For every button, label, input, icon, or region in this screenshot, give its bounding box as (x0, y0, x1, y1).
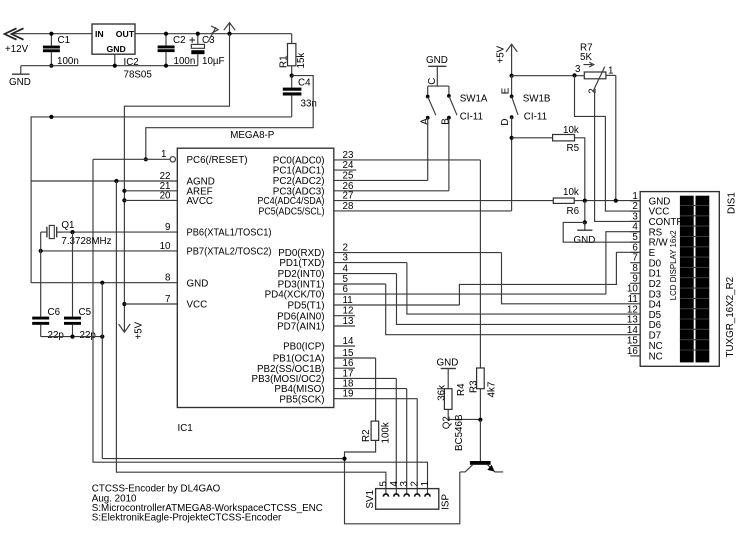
pin 26 PC3 wire (334, 190, 449, 192)
svg-text:GND: GND (187, 278, 209, 289)
capacitor C4 (283, 76, 317, 117)
svg-text:+5V: +5V (495, 45, 506, 63)
svg-text:7: 7 (165, 294, 170, 305)
wire PD2 to LCD D6 (397, 274, 641, 325)
wire PB5 to ISP pin2 (416, 399, 418, 494)
pin 3 PD1 wire (334, 262, 407, 264)
wire RESET row to pin1 (93, 158, 170, 160)
wire PD4 to LCD RS (606, 232, 640, 294)
LCD display DIS1 box (640, 192, 737, 367)
svg-text:ISP: ISP (440, 494, 451, 510)
ground symbol top-left (9, 66, 31, 88)
svg-text:PD2(INT0): PD2(INT0) (278, 269, 325, 280)
resistor R1 (279, 34, 308, 76)
wire RESET net R1 to pin1 (146, 76, 313, 160)
wire +5V branch to AVCC/AREF/VCC (124, 34, 229, 331)
resistor R6 10k (553, 187, 640, 217)
svg-text:OUT: OUT (116, 29, 135, 39)
svg-text:7.3728MHz: 7.3728MHz (61, 236, 111, 247)
svg-text:14: 14 (627, 325, 638, 336)
svg-text:PD1(TXD): PD1(TXD) (279, 258, 324, 269)
LCD pin 10 D3 stub (630, 293, 640, 295)
pin 6 PD4 wire (334, 293, 606, 295)
wire pot wiper to LCD CONTR (595, 90, 641, 221)
LCD pin 15 NC stub (630, 345, 640, 347)
wire ISP GND column (116, 181, 386, 494)
wire PC0 to R3 (479, 160, 481, 368)
svg-text:+12V: +12V (5, 44, 29, 55)
junction SW1B-D / R5 (510, 136, 514, 140)
svg-text:4: 4 (343, 264, 349, 275)
svg-text:E: E (501, 87, 512, 94)
svg-text:16: 16 (627, 346, 638, 357)
microcontroller IC1 MEGA8-P (177, 130, 333, 434)
switch SW1B CI-11 (500, 76, 551, 126)
svg-text:11: 11 (343, 295, 353, 306)
junction caps row / GND column (100, 335, 104, 339)
capacitor C5 (64, 307, 96, 341)
svg-text:10: 10 (160, 241, 171, 252)
svg-text:IC2: IC2 (124, 57, 139, 68)
wire PD0 to LCD D4 (502, 253, 641, 304)
pin 15 PB1 wire (334, 357, 376, 359)
pin 23 PC0 wire (334, 159, 481, 161)
svg-text:R1: R1 (279, 55, 290, 68)
wire SW1B-D to PC5 (511, 117, 513, 211)
wire RESET to ISP pin1 (93, 159, 428, 493)
junction Q2 base / R3 / R4 (478, 418, 482, 422)
svg-text:100n: 100n (174, 56, 196, 67)
svg-text:1: 1 (420, 481, 431, 486)
svg-text:100k: 100k (381, 422, 392, 443)
ground symbol above SW1A (426, 55, 448, 86)
pin 16 PB2 stub (334, 367, 355, 369)
pin 20 AVCC wire (124, 199, 177, 201)
LCD pin 7 D0 stub (630, 262, 640, 264)
svg-text:36k: 36k (436, 385, 447, 401)
pin 25 PC2 wire (334, 179, 428, 181)
pin 17 PB3 wire (334, 377, 397, 379)
svg-text:D2: D2 (649, 279, 662, 290)
pin 12 PD6 stub (334, 315, 355, 317)
svg-text:5K: 5K (580, 52, 592, 63)
junction +5V arrow (227, 32, 231, 36)
pin 27 PC4 wire to R6 (334, 200, 554, 202)
supply arrow +5V top (224, 23, 235, 34)
svg-text:PD7(AIN1): PD7(AIN1) (277, 322, 324, 333)
transistor Q2 BC546B (442, 414, 504, 472)
svg-text:LCD DISPLAY 16x2: LCD DISPLAY 16x2 (669, 230, 678, 300)
ground symbol above R4 (437, 357, 459, 388)
junction C3 top (196, 32, 200, 36)
junction pin10 / crystal column (39, 249, 43, 253)
svg-text:GND: GND (9, 77, 31, 88)
svg-text:22p: 22p (80, 330, 97, 341)
svg-text:D7: D7 (649, 331, 662, 342)
junction C1 bottom (49, 64, 53, 68)
supply arrow +5V at SW1B (495, 44, 517, 75)
voltage regulator IC2 78S05 (92, 24, 152, 80)
capacitor C1 (43, 34, 79, 67)
svg-text:CI-11: CI-11 (524, 112, 547, 123)
wire PB1 to R2 (375, 358, 377, 421)
svg-text:C: C (427, 78, 438, 85)
svg-text:3: 3 (575, 64, 581, 75)
junction AVCC (122, 198, 126, 202)
junction +5V / pot row (510, 74, 514, 78)
junction C1 top (49, 32, 53, 36)
svg-text:C6: C6 (48, 307, 61, 318)
svg-text:25: 25 (343, 170, 354, 181)
pin 22 AGND wire (31, 180, 177, 182)
svg-text:C5: C5 (79, 307, 92, 318)
junction pin8 / GND column (100, 281, 104, 285)
junction C2 top (164, 32, 168, 36)
pin 14 PB0 stub (334, 345, 355, 347)
switch SW1A CI-11 (419, 78, 488, 125)
LCD pin 6 E (630, 251, 640, 253)
svg-text:GND: GND (107, 44, 126, 54)
wire GND column pin8 to bottom (101, 283, 103, 459)
LCD pin 16 NC stub (630, 355, 640, 357)
pin 28 PC5 wire (334, 210, 512, 212)
svg-text:SV1: SV1 (365, 490, 376, 509)
ground symbol below R6 (574, 222, 596, 245)
supply arrow small over C3 (208, 26, 218, 42)
capacitor C2 (158, 34, 196, 67)
svg-text:28: 28 (343, 201, 354, 212)
svg-text:R2: R2 (361, 429, 372, 442)
pin 5 PD3 wire (334, 283, 386, 285)
svg-text:B: B (440, 118, 451, 125)
svg-text:10µF: 10µF (202, 56, 225, 67)
junction GND row / R2 column (342, 457, 346, 461)
svg-text:PB6(XTAL1/TOSC1): PB6(XTAL1/TOSC1) (187, 228, 272, 239)
svg-text:20: 20 (160, 190, 171, 201)
LCD pin 1 GND (630, 200, 640, 202)
wire C5 column (72, 232, 74, 317)
svg-text:PB5(SCK): PB5(SCK) (279, 394, 324, 405)
capacitor C3 polarized (190, 34, 225, 67)
resistor R2 100k (361, 421, 392, 443)
pin 19 PB5 wire (334, 398, 417, 400)
svg-text:78S05: 78S05 (124, 69, 153, 80)
svg-text:10k: 10k (563, 187, 579, 198)
svg-text:22p: 22p (48, 330, 65, 341)
potentiometer R7 5K (572, 43, 615, 94)
svg-text:CI-11: CI-11 (460, 112, 483, 123)
wire R6 to ground symbol (584, 201, 586, 223)
junction pot pin1 / GND row (614, 199, 618, 203)
svg-text:PC2(ADC2): PC2(ADC2) (273, 176, 325, 187)
svg-text:PB0(ICP): PB0(ICP) (283, 342, 324, 353)
svg-text:S:ElektronikEagle-ProjekteCTCS: S:ElektronikEagle-ProjekteCTCSS-Encoder (92, 513, 282, 524)
svg-text:R3: R3 (468, 380, 479, 393)
wire R2 bottom to GND net (345, 440, 460, 523)
svg-text:4: 4 (632, 222, 638, 233)
svg-text:1: 1 (608, 65, 613, 76)
text title block (92, 484, 323, 524)
junction VCC (122, 302, 126, 306)
svg-text:PD5(T1): PD5(T1) (287, 301, 324, 312)
junction C5 bottom (70, 335, 74, 339)
svg-text:19: 19 (343, 389, 354, 400)
svg-text:6: 6 (343, 284, 349, 295)
wire GND loop to LCD R/W (563, 222, 640, 242)
svg-text:3: 3 (343, 253, 349, 264)
junction GND row / C1 column (49, 115, 53, 119)
svg-text:10k: 10k (563, 125, 579, 136)
svg-text:PB7(XTAL2/TOSC2): PB7(XTAL2/TOSC2) (187, 247, 272, 258)
supply arrow +12V input (5, 28, 29, 55)
pin 1 bubble PC6/RESET (170, 157, 175, 162)
wire +5V rail (135, 33, 292, 35)
wire caps ground row (41, 336, 103, 338)
wire crystal left to C6 (40, 232, 42, 317)
junction R6 right / GND stub (583, 199, 587, 203)
wire GND rail (21, 65, 198, 67)
junction AREF (122, 189, 126, 193)
supply arrow +5V down at VCC (119, 321, 145, 339)
svg-text:PC6(/RESET): PC6(/RESET) (187, 155, 248, 166)
pin 11 PD5 wire (334, 304, 460, 306)
junction IC2 GND pin (113, 64, 117, 68)
svg-text:SW1A: SW1A (460, 94, 488, 105)
wire PD5 jog to LCD E (459, 252, 616, 305)
svg-text:PC5(ADC5/SCL): PC5(ADC5/SCL) (259, 207, 325, 218)
LCD pin 9 D2 stub (630, 282, 640, 284)
wire SW1A-B to PC3 (448, 118, 450, 191)
crystal Q1 (41, 220, 112, 247)
svg-text:33n: 33n (301, 99, 317, 110)
LCD pin 2 VCC (630, 210, 640, 212)
svg-text:2: 2 (587, 88, 598, 93)
wire GND row from C4 to left column (31, 117, 292, 283)
svg-text:SW1B: SW1B (523, 94, 551, 105)
pin 7 VCC wire (124, 303, 177, 305)
pin 21 AREF wire (124, 190, 177, 192)
resistor R3 4k7 (468, 368, 497, 420)
svg-text:4: 4 (389, 481, 400, 487)
svg-text:4k7: 4k7 (486, 382, 497, 398)
wire PB4 to ISP pin3 (406, 389, 408, 494)
capacitor C6 (32, 307, 64, 341)
svg-text:Q1: Q1 (61, 220, 74, 231)
svg-text:9: 9 (165, 222, 170, 233)
pin 2 PD0 wire (334, 252, 502, 254)
junction C2 bottom (164, 64, 168, 68)
svg-text:C1: C1 (58, 35, 71, 46)
svg-text:AVCC: AVCC (187, 196, 214, 207)
wire +5V row to pot pin3 (512, 75, 585, 77)
pin 9 PB6 wire (57, 231, 177, 233)
LCD pin 4 RS (630, 231, 640, 233)
resistor R4 36k (436, 383, 480, 419)
svg-text:IC1: IC1 (178, 423, 193, 434)
svg-text:R6: R6 (567, 206, 580, 217)
resistor R5 10k (512, 125, 585, 201)
LCD pin 3 CONTR (630, 220, 640, 222)
svg-text:+5V: +5V (134, 321, 145, 339)
svg-text:MEGA8-P: MEGA8-P (230, 130, 275, 141)
junction R1 bottom (290, 74, 294, 78)
wire pot pin1 to GND row (615, 75, 617, 200)
svg-text:NC: NC (649, 352, 663, 363)
svg-text:C2: C2 (173, 35, 186, 46)
svg-text:3: 3 (399, 481, 410, 487)
wire +12V rail (13, 33, 92, 35)
svg-text:1: 1 (161, 149, 166, 160)
LCD cell grid (680, 196, 709, 363)
wire +5V jog to LCD VCC (575, 75, 641, 211)
svg-text:GND: GND (437, 357, 459, 368)
svg-text:R4: R4 (456, 383, 467, 396)
wire PB3 to ISP pin4 (395, 378, 397, 493)
pin 8 GND wire (31, 282, 177, 284)
svg-text:14: 14 (343, 336, 354, 347)
wire GND row from column to R2 net (102, 458, 344, 460)
svg-text:13: 13 (343, 316, 354, 327)
pin 13 PD7 stub (334, 325, 355, 327)
svg-text:PD4(XCK/T0): PD4(XCK/T0) (265, 290, 325, 301)
wire SW1A-A to PC2 (427, 118, 429, 181)
svg-text:GND: GND (574, 235, 596, 246)
LCD pin 5 R/W (630, 241, 640, 243)
svg-text:GND: GND (426, 55, 448, 66)
svg-text:DIS1: DIS1 (727, 192, 738, 214)
junction RESET row (144, 157, 148, 161)
svg-text:BC546B: BC546B (454, 414, 465, 451)
LCD pin 8 D1 stub (630, 272, 640, 274)
svg-text:R5: R5 (567, 143, 580, 154)
svg-text:RS: RS (649, 227, 663, 238)
svg-text:15k: 15k (296, 53, 307, 69)
wire PD3 to LCD D7 (386, 284, 641, 335)
svg-text:9: 9 (632, 273, 637, 284)
svg-text:5: 5 (378, 481, 389, 487)
svg-text:A: A (419, 118, 430, 125)
junction GND stub (583, 220, 587, 224)
junction AGND / ISP-GND column (114, 179, 118, 183)
connector SV1 ISP (365, 481, 452, 510)
svg-text:Q2: Q2 (442, 416, 453, 429)
wire LCD E row stub (616, 251, 640, 253)
pin 18 PB4 wire (334, 388, 407, 390)
svg-text:TUXGR_16X2_R2: TUXGR_16X2_R2 (725, 277, 736, 358)
pin 24 PC1 stub (334, 169, 357, 171)
wire PD1 to LCD D5 (407, 263, 640, 315)
svg-text:VCC: VCC (187, 300, 208, 311)
svg-text:C4: C4 (298, 78, 311, 89)
junction pin9 / C5 column (70, 230, 74, 234)
pin 10 PB7 wire (41, 250, 178, 252)
svg-text:IN: IN (95, 29, 104, 39)
svg-text:D: D (500, 119, 511, 126)
pin 4 PD2 wire (334, 273, 397, 275)
svg-text:8: 8 (165, 273, 171, 284)
